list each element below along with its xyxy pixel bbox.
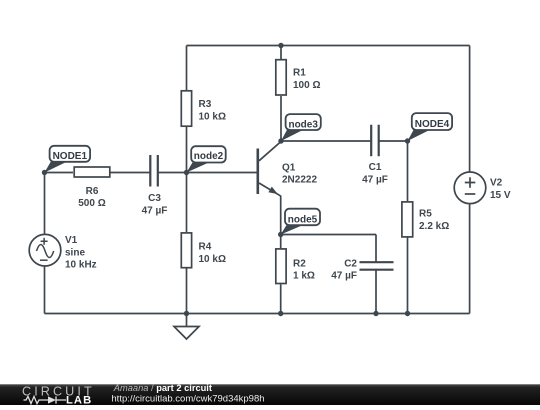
svg-text:Amaana / part 2 circuit: Amaana / part 2 circuit <box>113 383 212 393</box>
svg-text:http://circuitlab.com/cwk79d34: http://circuitlab.com/cwk79d34kp98h <box>111 394 264 405</box>
wire R5 to rail <box>407 238 409 314</box>
wire C1 to NODE4 <box>379 140 408 142</box>
node NODE1 label <box>45 146 91 173</box>
svg-text:10 kHz: 10 kHz <box>65 260 97 271</box>
footer logo zigzag diode <box>24 396 67 403</box>
wire C2 bottom lead <box>375 270 377 314</box>
svg-text:node5: node5 <box>288 215 318 226</box>
svg-text:node2: node2 <box>194 151 224 162</box>
wire V2 branch upper <box>469 46 471 173</box>
capacitor C1 <box>362 125 388 186</box>
resistor R2 <box>276 249 315 284</box>
capacitor C3 <box>142 155 168 216</box>
wire emitter to R2 through node5 <box>280 196 282 248</box>
svg-text:R1: R1 <box>293 67 306 78</box>
svg-text:1 kΩ: 1 kΩ <box>293 271 315 282</box>
svg-text:R4: R4 <box>199 241 212 252</box>
svg-text:2N2222: 2N2222 <box>282 175 317 186</box>
svg-text:Q1: Q1 <box>282 162 296 173</box>
junction dot R2 rail <box>278 311 283 316</box>
wire V2 branch lower <box>469 204 471 314</box>
footer bar <box>0 384 540 405</box>
wire V1 bottom to rail <box>44 266 46 314</box>
svg-text:NODE4: NODE4 <box>415 119 450 130</box>
wire C3 to Q1 base through node2 <box>158 172 258 174</box>
junction dot ground rail <box>184 311 189 316</box>
junction dot NODE1 <box>42 170 47 175</box>
junction dot top rail R1 <box>278 43 283 48</box>
junction dot node2 <box>184 170 189 175</box>
junction dot NODE4 <box>405 138 410 143</box>
wire NODE4 to R5 <box>407 141 409 201</box>
svg-text:R3: R3 <box>199 99 212 110</box>
junction dot C2 rail <box>373 311 378 316</box>
capacitor C2 <box>331 258 393 281</box>
svg-text:R6: R6 <box>86 186 99 197</box>
svg-text:100 Ω: 100 Ω <box>293 80 320 91</box>
svg-text:2.2 kΩ: 2.2 kΩ <box>419 221 449 232</box>
wire R1 to collector node3 <box>280 96 282 141</box>
wire top rail to R1 <box>280 46 282 60</box>
junction dot node5 <box>278 232 283 237</box>
svg-text:V2: V2 <box>490 178 503 189</box>
svg-text:10 kΩ: 10 kΩ <box>199 111 226 122</box>
svg-text:V1: V1 <box>65 235 78 246</box>
wire NODE1 to R6 <box>45 172 74 174</box>
transistor Q1 <box>257 142 318 197</box>
svg-text:47 µF: 47 µF <box>142 205 168 216</box>
ground <box>174 314 199 340</box>
wire R4 to ground rail <box>186 269 188 314</box>
svg-text:R5: R5 <box>419 209 432 220</box>
wire top rail to R3 <box>186 46 188 91</box>
svg-text:10 kΩ: 10 kΩ <box>199 254 226 265</box>
wire R6 to C3 <box>111 172 151 174</box>
svg-text:node3: node3 <box>288 120 318 131</box>
svg-text:C1: C1 <box>369 162 382 173</box>
wire top rail <box>187 45 470 47</box>
svg-text:500 Ω: 500 Ω <box>78 198 105 209</box>
resistor R6 <box>74 167 110 209</box>
svg-text:C3: C3 <box>148 193 161 204</box>
wire NODE1 to V1 top <box>44 173 46 235</box>
svg-text:C2: C2 <box>344 258 357 269</box>
svg-text:15 V: 15 V <box>490 190 511 201</box>
node node2 label <box>187 146 226 172</box>
junction dot R5 rail <box>405 311 410 316</box>
svg-text:47 µF: 47 µF <box>331 271 357 282</box>
wire node3 to C1 <box>281 140 371 142</box>
svg-text:sine: sine <box>65 247 85 258</box>
svg-text:47 µF: 47 µF <box>362 174 388 185</box>
svg-text:LAB: LAB <box>66 394 92 405</box>
wire node5 to C2 <box>281 234 376 236</box>
resistor R5 <box>402 202 449 237</box>
wire bottom rail <box>45 313 470 315</box>
node node3 label <box>281 114 321 141</box>
svg-text:R2: R2 <box>293 258 306 269</box>
junction dot node3 <box>278 138 283 143</box>
wire C2 top lead <box>375 235 377 263</box>
node node5 label <box>281 209 320 235</box>
resistor R3 <box>181 91 226 126</box>
wire R2 to rail <box>280 284 282 313</box>
voltage source V1 <box>29 234 96 270</box>
resistor R1 <box>276 60 321 95</box>
resistor R4 <box>181 233 226 268</box>
svg-text:NODE1: NODE1 <box>53 151 88 162</box>
node NODE4 label <box>408 113 453 141</box>
wire R3 to R4 through node2 <box>186 127 188 232</box>
voltage source V2 <box>454 172 511 204</box>
